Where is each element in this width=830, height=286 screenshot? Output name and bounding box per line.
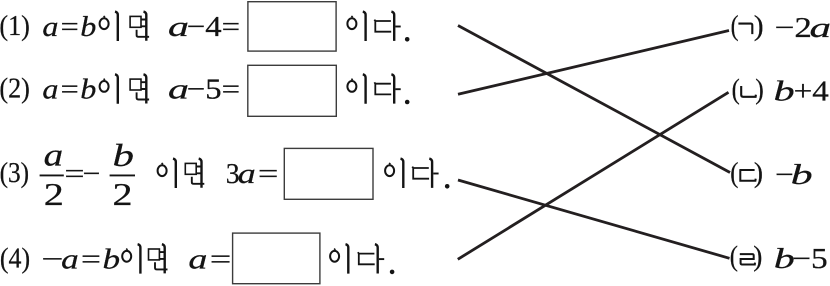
svg-text:(: (: [732, 74, 740, 106]
full stop (line 4): [390, 270, 395, 275]
matching line from (1) to (digeut): [458, 26, 730, 173]
svg-text:−: −: [83, 158, 101, 190]
svg-text:a=b: a=b: [42, 74, 96, 106]
svg-text:(: (: [731, 10, 739, 42]
full stop (line 3): [445, 184, 450, 189]
answer box 1: [248, 2, 336, 51]
svg-text:−5: −5: [792, 243, 828, 275]
hangul syllable da (line 1): [374, 12, 400, 41]
svg-text:(2): (2): [0, 73, 30, 105]
svg-text:−5=: −5=: [187, 74, 240, 106]
fraction bar a/2: [40, 174, 64, 176]
svg-text:+4: +4: [794, 76, 830, 108]
svg-text:a=b: a=b: [42, 11, 96, 43]
hangul syllable i of ida (line 4): [330, 244, 348, 273]
svg-text:): ): [755, 74, 764, 106]
jamo digeut: [739, 170, 755, 181]
hangul syllable i (line 1): [100, 12, 118, 41]
svg-text:b: b: [113, 137, 134, 173]
hangul syllable myeon (line 4): [149, 244, 168, 273]
hangul syllable da (line 3): [412, 159, 438, 188]
svg-text:(: (: [730, 241, 738, 273]
svg-text:b: b: [791, 159, 813, 191]
hangul syllable myeon (line 3): [185, 159, 204, 188]
matching line from (3) to (rieul): [458, 180, 730, 258]
svg-text:): ): [754, 157, 763, 189]
matching line from (4) to (nieun): [458, 92, 729, 259]
hangul syllable i (line 2): [100, 74, 118, 103]
hangul syllable da (line 4): [358, 244, 384, 273]
svg-text:−2: −2: [775, 12, 812, 44]
answer box 2: [248, 65, 336, 116]
answer box 3: [284, 148, 373, 199]
jamo rieul: [740, 254, 755, 264]
svg-text:2: 2: [44, 176, 64, 212]
svg-text:(1): (1): [0, 10, 30, 42]
svg-text:(3): (3): [0, 157, 29, 189]
svg-text:(4): (4): [0, 243, 30, 275]
matching line from (2) to (giyeok): [458, 31, 729, 95]
svg-text:): ): [754, 10, 764, 42]
svg-text:a=b: a=b: [61, 244, 120, 276]
svg-text:−: −: [41, 244, 63, 276]
answer box 4: [233, 233, 320, 284]
svg-text:b: b: [774, 76, 795, 108]
svg-text:a=: a=: [238, 158, 281, 190]
jamo nieun: [741, 86, 756, 97]
hangul syllable i of ida (line 1): [347, 12, 365, 41]
hangul syllable myeon (line 2): [130, 74, 149, 103]
fraction bar b/2: [110, 174, 135, 176]
full stop (line 1): [405, 37, 410, 42]
hangul syllable myeon (line 1): [130, 12, 149, 41]
svg-text:2: 2: [113, 176, 133, 212]
hangul syllable i (line 3): [158, 159, 176, 188]
svg-text:(: (: [730, 157, 738, 189]
jamo giyeok: [738, 24, 752, 34]
hangul syllable i of ida (line 2): [347, 74, 365, 103]
svg-text:a: a: [44, 136, 64, 172]
svg-text:−4=: −4=: [187, 11, 240, 43]
hangul syllable i (line 4): [122, 244, 140, 273]
hangul syllable da (line 2): [374, 74, 400, 103]
svg-text:a: a: [810, 12, 830, 44]
full stop (line 2): [405, 100, 410, 105]
hangul syllable i of ida (line 3): [385, 159, 403, 188]
svg-text:a=: a=: [188, 244, 233, 276]
